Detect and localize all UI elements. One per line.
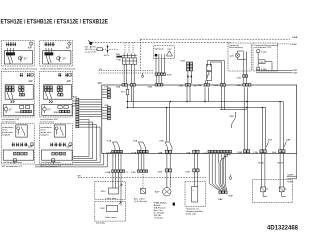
svg-text:RM1: RM1 bbox=[15, 112, 20, 114]
svg-text:ETSH12E / ETSHB12E / ETSX12E /: ETSH12E / ETSHB12E / ETSX12E / ETSXB12E bbox=[1, 20, 109, 26]
X7A stubs bbox=[102, 89, 108, 97]
svg-text:SQP: SQP bbox=[228, 195, 233, 197]
svg-text:4-04a: 4-04a bbox=[261, 51, 267, 53]
wires protector bbox=[206, 61, 225, 84]
connector arrows row1 bbox=[44, 42, 47, 46]
inner box row1 bbox=[43, 51, 71, 64]
svg-text:C2N: C2N bbox=[237, 77, 242, 79]
timer switch box bbox=[16, 125, 27, 137]
svg-text:X11A: X11A bbox=[131, 152, 137, 155]
svg-text:Timer: Timer bbox=[2, 128, 8, 131]
svg-text:A2P: A2P bbox=[67, 80, 72, 83]
svg-text:X3M: X3M bbox=[148, 87, 153, 89]
circled 1 row2 bbox=[69, 73, 72, 76]
connector box row3 bbox=[42, 150, 73, 160]
svg-text:X4M: X4M bbox=[180, 60, 185, 62]
thermostat 57C row2 bbox=[4, 107, 8, 111]
svg-text:S2OL: S2OL bbox=[104, 55, 110, 57]
wires K3P to X2M bbox=[156, 54, 165, 73]
relay RM1 bbox=[58, 106, 62, 109]
connector arrows row3 bbox=[50, 143, 53, 147]
svg-text:4-04b: 4-04b bbox=[261, 69, 267, 71]
dashed feed down to fuse bbox=[91, 44, 97, 49]
svg-text:A2P: A2P bbox=[28, 80, 33, 83]
remote operating unit row1 (on/off switch + thermostat 57C) bbox=[1, 41, 34, 67]
svg-text:X6YA: X6YA bbox=[258, 161, 264, 164]
double dashed control lines bbox=[99, 71, 154, 73]
svg-text:X2M: X2M bbox=[185, 172, 190, 174]
svg-text:X6A: X6A bbox=[116, 85, 121, 88]
wires A2B mid terminals to A1P bbox=[79, 109, 101, 116]
svg-text:(beide aktiv: (beide aktiv bbox=[40, 131, 52, 134]
heater Y2 bbox=[280, 185, 284, 188]
fuse F1 bbox=[97, 48, 103, 51]
svg-text:A1P: A1P bbox=[98, 82, 103, 85]
relay RM1 bbox=[20, 106, 24, 109]
inner box row1 bbox=[4, 51, 32, 64]
remote unit row2 (charge switch + thermostat + relay block RM1) bbox=[1, 72, 34, 118]
svg-text:K1R: K1R bbox=[268, 139, 273, 141]
svg-text:X..: X.. bbox=[126, 172, 129, 174]
thermistor circle bbox=[229, 177, 232, 180]
svg-text:K2A: K2A bbox=[133, 139, 138, 142]
circled 1 bbox=[68, 42, 71, 45]
single terminal bbox=[13, 159, 16, 162]
svg-text:A2P: A2P bbox=[66, 47, 71, 50]
svg-text:X2A: X2A bbox=[186, 152, 191, 155]
inner box row2 lower bbox=[3, 105, 33, 116]
svg-text:Lüfter oben: Lüfter oben bbox=[106, 197, 118, 200]
svg-text:L1,L2,L3,N: L1,L2,L3,N bbox=[85, 51, 96, 53]
right edge sensor leads bbox=[287, 154, 297, 179]
wires timer unit A under unit B to A1P bbox=[35, 154, 108, 167]
svg-text:S2PH: S2PH bbox=[287, 181, 293, 183]
connector HAP bbox=[219, 191, 221, 193]
remote timer unit row3 bbox=[1, 124, 34, 164]
svg-text:K1A: K1A bbox=[107, 139, 112, 142]
svg-text:mit Wegspeisekarte: mit Wegspeisekarte bbox=[42, 161, 62, 164]
svg-text:57°: 57° bbox=[62, 57, 66, 61]
svg-text:3N: 3N bbox=[99, 69, 102, 71]
heater option dashed box bbox=[253, 180, 293, 203]
wires F2B to board connectors bbox=[124, 64, 134, 83]
wires X4M down with arrows bbox=[188, 71, 191, 84]
svg-text:K8R: K8R bbox=[230, 116, 235, 118]
mains supply node bbox=[89, 42, 92, 45]
thermostat 57C bbox=[58, 56, 61, 62]
svg-text:X10A: X10A bbox=[106, 152, 112, 155]
circled 1 bbox=[29, 42, 32, 45]
down arrows between boxes bbox=[11, 100, 15, 103]
main switch S2OL bbox=[107, 45, 109, 54]
svg-text:4-l-Thermostat: 4-l-Thermostat bbox=[1, 121, 16, 124]
svg-text:S1PH: S1PH bbox=[287, 175, 293, 177]
svg-text:ein Ausschaltung DW 4-l-Thermo: ein Ausschaltung DW 4-l-Thermostat bbox=[1, 67, 37, 70]
wire bundle CZA to HAP (staircase) bbox=[209, 154, 230, 191]
aux blower option bbox=[142, 174, 144, 189]
svg-text:X9A: X9A bbox=[197, 84, 202, 87]
svg-text:möglich): möglich) bbox=[40, 135, 49, 137]
svg-text:(nicht estl): (nicht estl) bbox=[186, 213, 196, 216]
svg-text:X3M: X3M bbox=[178, 85, 183, 87]
svg-text:NN: NN bbox=[78, 175, 82, 177]
connector arrows row2 bbox=[58, 73, 61, 77]
option box external control K3M bbox=[253, 43, 278, 71]
svg-text:AGP: AGP bbox=[155, 191, 160, 194]
terminal a bbox=[257, 50, 260, 53]
flow switch symbol Q2L bbox=[235, 53, 239, 57]
remote timer unit row3 bbox=[40, 124, 73, 164]
svg-text:K3M: K3M bbox=[259, 62, 263, 64]
connector arrows row2 bbox=[20, 73, 23, 77]
svg-text:X2M: X2M bbox=[167, 75, 172, 77]
circled 1 row2 bbox=[30, 73, 33, 76]
svg-text:Beschreibung: Beschreibung bbox=[229, 46, 243, 49]
svg-text:A2P: A2P bbox=[28, 146, 33, 149]
svg-text:4-l-Thermostat: 4-l-Thermostat bbox=[40, 121, 55, 124]
svg-text:X40A: X40A bbox=[292, 36, 298, 39]
svg-text:A2P: A2P bbox=[66, 146, 71, 149]
thermostat 57C row2 bbox=[43, 107, 47, 111]
svg-text:57°: 57° bbox=[24, 57, 28, 61]
nested wires timer units to A2B strip bbox=[73, 120, 100, 163]
switch contacts row2 bbox=[7, 92, 13, 100]
svg-text:X1A: X1A bbox=[272, 151, 277, 154]
relay K3M bbox=[259, 60, 265, 64]
circulation pump AGP bbox=[167, 172, 170, 188]
svg-text:1NT Hauptplatine DT: 1NT Hauptplatine DT bbox=[1, 165, 22, 168]
fan unit M1C box bbox=[95, 182, 126, 200]
connector box row3 bbox=[3, 150, 34, 160]
dashed supply line to options bbox=[92, 42, 231, 44]
remote unit column B bbox=[40, 41, 76, 169]
svg-text:4D1322468: 4D1322468 bbox=[267, 225, 299, 231]
overcurrent protector Q1L bbox=[206, 64, 211, 70]
heater Y1 bbox=[261, 185, 265, 188]
svg-text:HAP: HAP bbox=[218, 198, 223, 201]
svg-text:X14A: X14A bbox=[105, 171, 111, 174]
thermostat 57C bbox=[20, 56, 23, 62]
option flow switch box K3P bbox=[154, 46, 175, 59]
svg-text:X3A: X3A bbox=[158, 152, 163, 155]
inner box row2 upper bbox=[5, 85, 33, 100]
remote unit row2 (charge switch + thermostat + relay block RM1) bbox=[40, 72, 73, 118]
svg-text:Lüfter unten: Lüfter unten bbox=[105, 216, 117, 219]
switch contacts row2 bbox=[46, 92, 52, 100]
remote operating unit row1 (on/off switch + thermostat 57C) bbox=[40, 41, 73, 67]
svg-text:(beide aktiv: (beide aktiv bbox=[2, 131, 14, 134]
svg-text:t°: t° bbox=[193, 189, 195, 192]
svg-text:X1M: X1M bbox=[131, 172, 136, 174]
inner box row2 lower bbox=[42, 105, 72, 116]
connector arrows row3 bbox=[12, 143, 15, 147]
supply rails inside A1P bbox=[127, 102, 283, 110]
svg-text:57°: 57° bbox=[47, 108, 51, 111]
svg-text:57°: 57° bbox=[9, 108, 13, 111]
svg-text:X2M: X2M bbox=[292, 73, 297, 75]
terminal strip X2M (top) bbox=[155, 73, 157, 75]
junction circle bbox=[141, 75, 143, 77]
outdoor sensor option box bbox=[185, 182, 206, 207]
svg-text:K3P: K3P bbox=[168, 49, 173, 51]
svg-text:vorhandene: vorhandene bbox=[2, 126, 14, 129]
wires option1 down bbox=[238, 51, 247, 75]
svg-text:TY (Zub.): TY (Zub.) bbox=[154, 217, 163, 219]
svg-text:möglich): möglich) bbox=[2, 135, 11, 137]
remote unit column A bbox=[1, 41, 37, 169]
svg-text:X8A: X8A bbox=[237, 84, 242, 87]
svg-text:K4R: K4R bbox=[286, 139, 291, 141]
switch contacts bbox=[46, 55, 51, 63]
stubs unit B to A2B bbox=[73, 101, 76, 106]
svg-text:vorhandene: vorhandene bbox=[40, 126, 52, 129]
second row connectors below A1P bbox=[113, 153, 121, 170]
down arrows between boxes bbox=[49, 100, 53, 103]
svg-text:Qt 4-l (Direkt): Qt 4-l (Direkt) bbox=[134, 200, 147, 203]
connector arrows row1 bbox=[6, 42, 9, 46]
single terminal bbox=[52, 159, 55, 162]
internal vertical wires bbox=[167, 86, 284, 150]
svg-text:Optionale: Optionale bbox=[154, 48, 164, 51]
svg-text:C1A: C1A bbox=[253, 151, 258, 154]
svg-text:M1C: M1C bbox=[101, 191, 106, 193]
option box flow switch Q2L bbox=[228, 43, 251, 71]
svg-text:CMA: CMA bbox=[237, 151, 242, 154]
svg-text:A2P: A2P bbox=[28, 47, 33, 50]
svg-text:bauseitig: bauseitig bbox=[96, 222, 106, 225]
svg-text:M2C: M2C bbox=[101, 208, 106, 210]
timer switch box bbox=[54, 125, 65, 137]
terminal strip (filled) bbox=[46, 48, 52, 53]
svg-text:RM1: RM1 bbox=[54, 112, 59, 114]
inner box row2 upper bbox=[44, 85, 72, 100]
svg-text:mit Wegspeisekarte: mit Wegspeisekarte bbox=[3, 161, 23, 164]
svg-text:nach Art des TÜV: nach Art des TÜV bbox=[254, 46, 272, 49]
svg-text:K3M: K3M bbox=[292, 44, 297, 46]
svg-text:ein Ausschaltung DW 4-l-Thermo: ein Ausschaltung DW 4-l-Thermostat bbox=[40, 67, 76, 70]
wires A2B to A1P bbox=[79, 100, 101, 107]
wires X2M to X3M bbox=[156, 76, 161, 84]
svg-text:K4A: K4A bbox=[160, 139, 165, 142]
connector X1M bbox=[130, 84, 133, 87]
svg-text:CZA: CZA bbox=[214, 84, 219, 87]
svg-text:F1B: F1B bbox=[117, 60, 122, 62]
svg-text:CZA: CZA bbox=[203, 152, 208, 155]
svg-text:X1M: X1M bbox=[158, 172, 163, 174]
main PCB A1P bbox=[102, 85, 297, 154]
svg-text:Timer: Timer bbox=[40, 128, 46, 131]
fan unit M2C box bbox=[95, 201, 126, 221]
switch contacts bbox=[8, 55, 13, 63]
terminal strip (filled) bbox=[8, 48, 14, 53]
svg-text:F2B: F2B bbox=[116, 54, 121, 56]
